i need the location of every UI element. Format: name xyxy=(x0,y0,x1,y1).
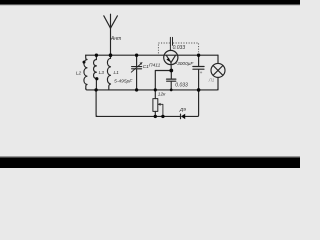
svg-text:Д9: Д9 xyxy=(179,107,186,113)
svg-text:+: + xyxy=(200,71,203,76)
svg-text:Ант: Ант xyxy=(110,36,121,42)
svg-text:П411: П411 xyxy=(149,63,161,69)
svg-text:L1: L1 xyxy=(114,70,120,76)
svg-text:0.033: 0.033 xyxy=(173,45,186,51)
svg-text:12к: 12к xyxy=(158,92,166,98)
svg-text:L3: L3 xyxy=(99,70,105,76)
svg-text:L2: L2 xyxy=(76,71,82,77)
svg-text:Л1: Л1 xyxy=(208,77,215,82)
svg-text:0.033: 0.033 xyxy=(175,82,188,88)
svg-text:~3000μF: ~3000μF xyxy=(174,61,194,67)
svg-text:5-495pF: 5-495pF xyxy=(114,78,133,84)
